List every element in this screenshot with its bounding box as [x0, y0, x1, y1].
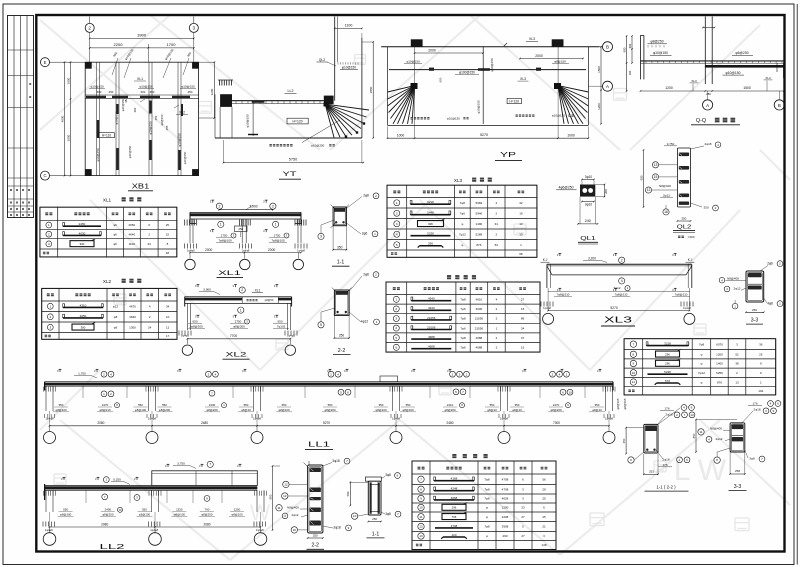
section 1-1a callout 3 [318, 233, 324, 239]
section 1-1b outline [368, 481, 381, 515]
svg-text:13: 13 [519, 232, 523, 236]
plan XB1 outline [85, 62, 198, 175]
svg-text:5448: 5448 [427, 211, 434, 215]
svg-text:XL3: XL3 [691, 79, 697, 83]
svg-text:450: 450 [188, 90, 193, 94]
svg-text:QL2: QL2 [319, 58, 326, 62]
plan XB1 inner vertical beams [96, 62, 98, 175]
svg-text:φ8@200: φ8@200 [444, 408, 456, 412]
table XL1 rows [46, 222, 52, 228]
svg-text:4310: 4310 [80, 303, 87, 307]
section 1-1a hatch band [334, 208, 345, 212]
svg-text:2-2: 2-2 [338, 348, 346, 354]
beam XL2 hanging box label [242, 297, 278, 303]
svg-text:500: 500 [141, 90, 146, 94]
section 1-1b side bars [370, 482, 372, 513]
svg-text:A: A [606, 84, 609, 89]
svg-text:2φ8: 2φ8 [363, 272, 369, 276]
svg-text:550: 550 [490, 403, 495, 407]
svg-text:8: 8 [633, 352, 635, 356]
svg-text:1500: 1500 [597, 66, 601, 73]
section 3-3b callouts left [698, 429, 704, 435]
table beam1 rows [393, 296, 399, 302]
svg-text:2000: 2000 [66, 134, 70, 141]
table XL3 rows [394, 200, 400, 206]
svg-text:2φ8: 2φ8 [363, 194, 369, 198]
section 1122 outline [644, 424, 658, 453]
svg-text:φ8@250: φ8@250 [650, 40, 663, 44]
svg-text:φ: φ [701, 362, 703, 366]
svg-text:252: 252 [649, 470, 654, 474]
svg-text:160: 160 [628, 70, 632, 75]
svg-text:4000: 4000 [60, 115, 64, 122]
svg-text:2φ12: 2φ12 [716, 437, 723, 441]
table XL2 total row [45, 335, 48, 338]
section YP axis circle A [603, 81, 613, 91]
plan XB1 beam dark segments [86, 96, 106, 98]
svg-text:10: 10 [632, 371, 636, 375]
beam LL2 bottom dim [50, 526, 261, 528]
svg-text:1: 1 [396, 201, 398, 205]
svg-text:K.J: K.J [688, 258, 693, 262]
svg-text:4168: 4168 [451, 477, 458, 481]
svg-text:996: 996 [428, 222, 433, 226]
svg-text:36: 36 [759, 342, 763, 346]
svg-text:550: 550 [595, 403, 600, 407]
beam LL1 circles below [101, 391, 107, 397]
svg-text:2450: 2450 [79, 222, 86, 226]
svg-text:1,700: 1,700 [78, 371, 86, 375]
svg-text:1: 1 [395, 297, 397, 301]
svg-text:=300: =300 [688, 235, 695, 239]
section 2-2b rebar bands [310, 468, 321, 473]
svg-text:258: 258 [735, 469, 740, 473]
svg-text:5750: 5750 [289, 157, 297, 161]
svg-text:1φ4φ8: 1φ4φ8 [45, 528, 53, 532]
svg-text:XB1: XB1 [132, 183, 150, 190]
svg-text:XL1: XL1 [137, 77, 143, 81]
svg-text:2φ18: 2φ18 [753, 408, 760, 412]
section 1-1a outline [333, 207, 346, 226]
svg-text:1490: 1490 [476, 222, 483, 226]
svg-text:7: 7 [420, 477, 422, 481]
svg-text:500: 500 [97, 90, 102, 94]
svg-text:500: 500 [346, 491, 350, 496]
svg-text:148: 148 [541, 543, 546, 547]
plan XB1 right dim 1200 [213, 62, 215, 118]
plan XB1 H=110 box [99, 133, 115, 138]
svg-text:850: 850 [268, 494, 272, 499]
beam LL1 body [45, 381, 613, 383]
svg-text:550: 550 [59, 403, 64, 407]
svg-text:10: 10 [293, 528, 297, 532]
svg-text:φ8@200: φ8@200 [206, 408, 218, 412]
section YP note left [411, 117, 413, 119]
svg-text:2080: 2080 [101, 522, 108, 526]
svg-text:12: 12 [284, 483, 288, 487]
svg-text:φ8@210: φ8@210 [99, 408, 111, 412]
svg-text:53: 53 [495, 243, 499, 247]
svg-text:φ6: φ6 [113, 232, 117, 236]
svg-text:5289: 5289 [476, 232, 483, 236]
svg-text:0,250: 0,250 [113, 478, 121, 482]
svg-text:290: 290 [428, 242, 433, 246]
svg-text:2000: 2000 [428, 48, 436, 52]
svg-text:2406: 2406 [105, 508, 112, 512]
svg-text:6: 6 [395, 345, 397, 349]
svg-text:21556: 21556 [475, 317, 484, 321]
detail QL2 outline [677, 148, 690, 207]
svg-text:5: 5 [320, 323, 322, 327]
beam XL3 body [547, 263, 692, 265]
svg-text:H=120: H=120 [509, 100, 519, 104]
svg-text:450: 450 [150, 90, 155, 94]
svg-text:21: 21 [542, 525, 546, 529]
detail QL2 callouts left [652, 162, 658, 168]
svg-text:550: 550 [244, 403, 249, 407]
svg-text:4688: 4688 [476, 346, 483, 350]
beam LL2 support verticals [45, 490, 47, 512]
svg-text:34: 34 [166, 304, 170, 308]
svg-text:4708: 4708 [502, 477, 509, 481]
plan XB1 vertical dark strokes [116, 148, 119, 170]
svg-text:φ: φ [461, 222, 463, 226]
svg-text:11: 11 [419, 515, 422, 519]
svg-text:29: 29 [542, 487, 546, 491]
svg-text:1800: 1800 [66, 77, 70, 84]
section YP axis circle B [603, 42, 613, 52]
section YT left stirrups [219, 80, 221, 86]
svg-text:φ10@150: φ10@150 [149, 121, 153, 135]
sideview QQ axis circle B [774, 100, 784, 110]
section 1-1b callout 10 [351, 513, 357, 519]
svg-text:1200: 1200 [502, 506, 509, 510]
svg-text:2: 2 [218, 204, 220, 208]
beam XL2 body [185, 296, 292, 298]
svg-text:LL2: LL2 [288, 89, 294, 93]
svg-text:1: 1 [240, 308, 242, 312]
section YP right fan [558, 86, 588, 92]
svg-text:600: 600 [439, 77, 443, 82]
svg-text:296: 296 [665, 352, 670, 356]
table beam2 rows [418, 476, 424, 482]
svg-text:13: 13 [735, 380, 739, 384]
svg-text:7φ8@100: 7φ8@100 [271, 238, 285, 242]
svg-text:3: 3 [193, 26, 196, 31]
svg-text:φ8@200: φ8@200 [102, 512, 114, 516]
section YP H=120 box [507, 98, 521, 103]
section 2-2a corner ticks [332, 288, 337, 293]
svg-text:380: 380 [81, 325, 86, 329]
plan XB1 column blacks [85, 62, 92, 68]
svg-text:3850: 3850 [369, 86, 373, 93]
svg-text:48: 48 [166, 251, 170, 255]
svg-text:12: 12 [647, 188, 651, 192]
sideview QQ wall verticals [640, 35, 642, 79]
sideview QQ bottom dim [641, 90, 785, 92]
sideview QQ center column verticals [704, 17, 706, 85]
beam XL1 circles below [218, 221, 224, 227]
section 3-3a outline [746, 271, 764, 302]
svg-text:φ: φ [461, 243, 463, 247]
svg-text:3-3: 3-3 [751, 318, 759, 324]
svg-text:2410: 2410 [447, 403, 454, 407]
svg-text:98: 98 [519, 252, 523, 256]
svg-text:3φ12: 3φ12 [614, 286, 621, 290]
svg-text:7φ6: 7φ6 [460, 326, 466, 330]
svg-text:3φ18: 3φ18 [332, 459, 340, 463]
svg-text:L W: L W [674, 454, 727, 487]
svg-text:450: 450 [238, 227, 243, 231]
svg-text:290: 290 [502, 534, 507, 538]
svg-text:34: 34 [521, 326, 525, 330]
section 3-3b outline [730, 423, 745, 452]
plan XB1 left dims [70, 62, 72, 175]
svg-text:XL3: XL3 [765, 76, 771, 80]
svg-text:15: 15 [521, 346, 525, 350]
svg-text:φ8@100: φ8@100 [60, 512, 72, 516]
svg-text:7φ8@100: 7φ8@100 [218, 238, 232, 242]
svg-text:1-1: 1-1 [372, 531, 380, 537]
beam XL1 callout circles top [216, 203, 222, 209]
table beam2 total row [416, 544, 419, 547]
detail QL1 right dim 200 [604, 185, 606, 197]
svg-text:6070: 6070 [716, 342, 723, 346]
svg-text:550: 550 [379, 403, 384, 407]
section YP bottom dim [388, 137, 589, 139]
svg-text:450: 450 [622, 438, 626, 443]
svg-text:φ10@150: φ10@150 [552, 114, 565, 118]
table cont rows [630, 341, 636, 347]
svg-text:LL1: LL1 [308, 442, 330, 449]
svg-text:φ8@105: φ8@105 [623, 398, 627, 409]
svg-text:56: 56 [542, 477, 546, 481]
svg-text:φ: φ [486, 506, 488, 510]
beam XL1 end hardware [184, 244, 186, 249]
svg-text:φ8@200: φ8@200 [550, 408, 562, 412]
svg-text:10: 10 [119, 508, 122, 512]
svg-text:120: 120 [451, 533, 456, 537]
beam XL2 bottom dim [187, 338, 290, 340]
svg-text:φ8@200: φ8@200 [201, 512, 213, 516]
plan XB1 extra leaders [112, 58, 118, 75]
svg-text:250: 250 [752, 308, 757, 312]
svg-text:1000: 1000 [397, 133, 405, 137]
plan XB1 axis line C [41, 171, 50, 180]
section 3-3b mid dim [695, 420, 697, 453]
table XL2 grid [41, 288, 43, 339]
svg-text:4φ12: 4φ12 [361, 320, 369, 324]
svg-text:1φ4φ8: 1φ4φ8 [392, 417, 400, 421]
svg-text:7φ8: 7φ8 [484, 497, 490, 501]
table XL1 grid [39, 207, 41, 257]
svg-text:876: 876 [476, 243, 481, 247]
svg-text:1φ4φ8: 1φ4φ8 [148, 417, 156, 421]
svg-text:10: 10 [353, 514, 357, 518]
beam LL2 body dark band [45, 485, 152, 487]
svg-text:900: 900 [622, 47, 626, 52]
svg-text:9: 9 [633, 362, 635, 366]
svg-text:7φ8: 7φ8 [460, 201, 466, 205]
svg-text:2: 2 [272, 204, 274, 208]
svg-text:5270: 5270 [480, 133, 488, 137]
watermark glyphs [199, 102, 212, 114]
svg-text:2000: 2000 [535, 54, 543, 58]
svg-text:23: 23 [521, 506, 525, 510]
svg-text:2φ8@300: 2φ8@300 [189, 324, 203, 328]
svg-text:3φ10: 3φ10 [585, 175, 593, 179]
svg-text:4340: 4340 [428, 297, 435, 301]
svg-text:3,900: 3,900 [203, 288, 211, 292]
sideview QQ right beam band [705, 65, 784, 68]
svg-text:2000: 2000 [268, 248, 276, 252]
detail QL2 width note [678, 236, 680, 238]
svg-text:7φ8@210: 7φ8@210 [675, 292, 688, 296]
svg-text:5270: 5270 [323, 421, 330, 425]
svg-text:1φ4φ8: 1φ4φ8 [683, 306, 691, 310]
svg-text:1200: 1200 [210, 88, 214, 95]
svg-text:3908: 3908 [502, 525, 509, 529]
section 1-1a corner ticks [331, 205, 336, 210]
beam XL2 end hardware [178, 331, 180, 336]
svg-text:650: 650 [282, 403, 287, 407]
svg-text:176: 176 [752, 402, 757, 406]
table cont total row [628, 390, 631, 393]
svg-text:φ8@100: φ8@100 [375, 408, 387, 412]
table XL3 grid [386, 185, 388, 257]
svg-text:3,750: 3,750 [177, 462, 185, 466]
svg-text:600: 600 [628, 43, 632, 48]
svg-text:φ8@105: φ8@105 [616, 398, 620, 409]
svg-text:2φ6: 2φ6 [362, 232, 368, 236]
svg-text:7φ12: 7φ12 [459, 232, 466, 236]
beam LL2 raised box [152, 471, 257, 486]
section YT left column black [220, 94, 232, 107]
svg-text:550: 550 [515, 403, 520, 407]
svg-text:1-1: 1-1 [337, 260, 345, 266]
svg-text:XL2: XL2 [103, 279, 112, 284]
table XL1 total row [43, 252, 46, 255]
section 1122 hatch band [645, 426, 656, 431]
svg-text:200: 200 [604, 189, 608, 194]
svg-text:1φ4φ5: 1φ4φ5 [287, 334, 295, 338]
section 1122 left dim [625, 428, 627, 454]
svg-text:4688: 4688 [428, 345, 435, 349]
section 3-3b callout 8 [714, 457, 720, 463]
svg-text:1100: 1100 [345, 24, 353, 28]
section YT hanging bar [252, 101, 254, 136]
section 2-2b outline [308, 465, 323, 533]
svg-text:2208: 2208 [502, 515, 509, 519]
section YP central vertical [482, 47, 484, 124]
svg-text:3: 3 [396, 222, 398, 226]
plan XB1 axis circle 3 [193, 17, 195, 24]
section YT beam top line [232, 100, 324, 102]
section YP main box [387, 47, 389, 126]
svg-text:650: 650 [277, 319, 282, 323]
svg-text:XL1: XL1 [103, 198, 112, 203]
svg-text:4φ8: 4φ8 [767, 301, 773, 305]
beam XL3 column bubbles [543, 313, 554, 324]
svg-text:φ8@100: φ8@100 [231, 512, 243, 516]
beam LL2 circles below [102, 494, 108, 500]
svg-text:1100: 1100 [129, 242, 136, 246]
svg-text:3φ8: 3φ8 [749, 457, 755, 461]
beam LL2 top marks right [167, 464, 169, 467]
svg-text:350: 350 [681, 216, 686, 220]
svg-text:10: 10 [419, 506, 423, 510]
svg-text:φ8@100: φ8@100 [278, 408, 290, 412]
svg-text:5: 5 [395, 336, 397, 340]
table XL2 rows [47, 303, 53, 309]
svg-text:φ10@150: φ10@150 [90, 84, 104, 88]
svg-text:350: 350 [337, 245, 343, 249]
svg-text:LL2: LL2 [100, 544, 125, 551]
svg-text:13: 13 [519, 222, 523, 226]
svg-text:19: 19 [519, 211, 523, 215]
svg-text:876: 876 [717, 380, 722, 384]
svg-text:1φ4φ8: 1φ4φ8 [242, 249, 250, 253]
svg-text:φ8@200: φ8@200 [233, 324, 245, 328]
svg-text:1200: 1200 [665, 86, 673, 90]
svg-text:φ12: φ12 [113, 304, 119, 308]
svg-text:φ8@100: φ8@100 [139, 512, 151, 516]
svg-text:3,200: 3,200 [588, 256, 596, 260]
svg-text:15: 15 [654, 175, 658, 179]
svg-text:7φ8: 7φ8 [460, 298, 466, 302]
svg-text:φ10@150: φ10@150 [128, 145, 132, 158]
beam LL1 column bubbles [44, 432, 56, 444]
section YT left verticals [219, 107, 221, 138]
section YT beam stirrup dashes [235, 101, 237, 104]
svg-text:C: C [43, 173, 46, 178]
svg-text:φ10@150: φ10@150 [406, 59, 420, 63]
sideview QQ axis circle A [703, 100, 713, 110]
svg-text:7φ8: 7φ8 [460, 317, 466, 321]
section 2-2a outline [334, 290, 349, 315]
svg-text:796: 796 [452, 515, 457, 519]
svg-text:7φ12: 7φ12 [698, 371, 705, 375]
svg-text:1φ4φ8: 1φ4φ8 [605, 417, 613, 421]
svg-text:17: 17 [166, 334, 170, 338]
svg-text:H=120: H=120 [293, 120, 303, 124]
svg-text:2480: 2480 [201, 421, 208, 425]
svg-text:φ10@150: φ10@150 [447, 116, 460, 120]
table beam2 title [452, 454, 456, 458]
plan XB1 small arrows [140, 99, 145, 102]
beam LL1 bottom dim [50, 425, 610, 427]
beam LL2 label 0.250 [103, 477, 109, 483]
svg-text:550: 550 [138, 403, 143, 407]
beam LL1 top marks [59, 369, 61, 372]
section 2-2b left callouts [283, 481, 289, 487]
beam XL2 column bubbles [182, 345, 192, 355]
svg-text:φ8: φ8 [114, 315, 118, 319]
plan XB1 axis circle 2 [89, 17, 91, 24]
svg-text:E: E [44, 60, 47, 65]
svg-text:382: 382 [124, 98, 128, 103]
svg-text:2φ18: 2φ18 [662, 458, 669, 462]
svg-text:42: 42 [519, 201, 523, 205]
section YP right dims [600, 47, 602, 124]
detail QL1 bottom dim 240 [578, 223, 598, 225]
svg-text:455: 455 [165, 125, 169, 130]
svg-text:550: 550 [328, 403, 333, 407]
svg-text:3708: 3708 [451, 524, 458, 528]
svg-text:2430: 2430 [209, 403, 216, 407]
svg-text:7φ8@210: 7φ8@210 [615, 292, 628, 296]
watermark diagonals [40, 15, 170, 130]
